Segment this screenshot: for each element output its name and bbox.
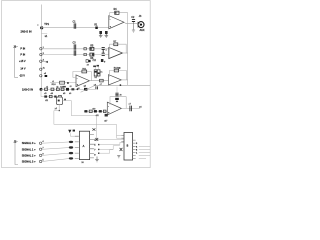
U6 right pin stubs — [133, 140, 136, 158]
wire stub above feedback — [116, 87, 118, 93]
svg-text:2N3-G IN: 2N3-G IN — [21, 30, 32, 34]
svg-text:P IN: P IN — [20, 48, 25, 51]
pin circle signal 2 — [39, 154, 41, 156]
IC U5 — [79, 131, 89, 159]
wire routing line C — [54, 111, 117, 139]
wire U6 out 3 — [139, 152, 150, 154]
IC U6 — [124, 133, 133, 161]
wire staircase d — [99, 150, 113, 154]
resistor R25 — [103, 110, 106, 112]
node 1N3 input dot — [40, 88, 43, 91]
ground under R3 — [105, 34, 109, 38]
node dots at U5 outputs — [98, 144, 100, 146]
svg-text:SIGNAL 3 +: SIGNAL 3 + — [22, 160, 36, 164]
capacitor C4 on P row 2 — [74, 50, 76, 55]
wire signal 3 — [42, 159, 69, 162]
pin 2 circle P IN — [40, 53, 42, 55]
wire U3a feedback loop — [73, 72, 91, 81]
wire U6 out 4 — [139, 155, 150, 157]
op-amp U3b — [109, 75, 122, 85]
wire U4 output — [121, 107, 140, 109]
resistor R4 feedback — [115, 11, 119, 14]
wire U2 feedback loop — [110, 44, 127, 53]
svg-text:14 V: 14 V — [20, 68, 25, 71]
connector J1 bracket — [15, 47, 18, 78]
resistor R16 — [56, 88, 59, 90]
U6 left pin stubs — [121, 135, 124, 141]
svg-text:AUX: AUX — [140, 29, 145, 32]
wire U3b output — [121, 79, 127, 81]
resistor R9 mid row — [86, 60, 88, 63]
diode D2 — [54, 96, 56, 98]
mark dark square at pin 5 — [45, 75, 48, 77]
resistor R12 on U3a output — [100, 79, 104, 82]
capacitor C3 on P row 1 — [74, 44, 76, 49]
op-amp U3a — [76, 75, 90, 87]
svg-text:+15 V: +15 V — [19, 60, 26, 63]
pin 3 circle +15V — [40, 60, 42, 62]
pin circle signal 3 — [39, 160, 41, 162]
wire stubs RN1 — [96, 67, 99, 78]
resistor R19 — [44, 95, 47, 97]
pin 5 circle -15V — [40, 75, 42, 77]
resistor R26 feedback — [115, 93, 118, 96]
node IN1 input dot — [40, 26, 43, 29]
resistor R23 — [89, 110, 92, 112]
resistor R24 — [99, 110, 102, 112]
svg-text:-15 V: -15 V — [19, 75, 25, 78]
pin 1 circle P IN — [40, 48, 42, 50]
resistor R8 bias — [101, 59, 104, 62]
resistor R10 on U3a input — [60, 81, 65, 84]
pin 4 circle 14V — [40, 68, 42, 70]
wire diagonal to trunk — [81, 86, 95, 93]
wire U6 out 1 — [139, 145, 150, 147]
wire from Y1 right side routing — [63, 101, 97, 142]
wire U6 out 5 — [139, 157, 146, 159]
mark at R13 — [118, 67, 120, 69]
resistor R17 — [61, 88, 64, 90]
wire Y1 bottom lead — [58, 105, 60, 111]
wire P row 1 — [42, 48, 109, 50]
svg-text:SIGNAL 2 +: SIGNAL 2 + — [22, 153, 36, 157]
resistor R27 below U4 input — [105, 114, 108, 117]
resistor R15 — [51, 88, 54, 90]
wire staircase c — [99, 146, 120, 150]
resistor R13 feedback — [114, 69, 118, 72]
diode D1 dark — [66, 88, 69, 91]
pin circle signal 1 — [39, 148, 41, 150]
U5 left pin stubs — [75, 136, 79, 158]
wire U2 output — [123, 52, 128, 54]
ground under U5 right — [95, 157, 99, 162]
resistor R5 on P row 1 — [90, 47, 94, 50]
wire U3a input row — [50, 82, 76, 84]
mark arrow at pin 3 — [42, 61, 48, 63]
wire U3a output — [90, 80, 109, 82]
mark dark on row right — [84, 88, 87, 91]
wire stub below IN1 node — [41, 32, 47, 34]
pin circle signal 0 — [39, 142, 41, 144]
wire IN1 row horizontal — [42, 27, 109, 29]
border frame — [2, 1, 151, 168]
connector J3 AUX output — [138, 22, 144, 28]
wire signal 0 — [42, 142, 69, 143]
resistor R22 — [84, 110, 87, 112]
marks above RN1 — [93, 66, 96, 68]
mark triangle at U5 top-left — [68, 130, 71, 133]
pin marks left of U5 — [69, 141, 73, 143]
bus output vertical wire — [127, 24, 129, 86]
wire signal 1 — [42, 148, 69, 150]
resistor R18 — [71, 88, 74, 90]
capacitor C5 between P rows — [102, 48, 105, 56]
wire signal 2 — [42, 153, 69, 155]
resistor R1 series on IN1 wire — [95, 27, 98, 30]
mark at U6 lower-left — [117, 156, 120, 158]
capacitor C1 on IN1 wire — [74, 23, 76, 28]
wire staircase a — [94, 139, 124, 141]
wire op4 chain row — [84, 110, 107, 112]
mark right of R10 — [67, 82, 69, 84]
wire 1N3 row — [41, 88, 95, 90]
mark X at U6 left — [120, 148, 123, 151]
diode D4 feedback — [115, 98, 119, 100]
resistor R29 small on P row 2 — [84, 53, 87, 55]
capacitor C6 near trunk — [96, 86, 98, 89]
resistor R20 — [49, 95, 52, 97]
diode D3 — [94, 110, 97, 112]
wire output trunk to edge — [95, 84, 151, 86]
resistor R11 feedback — [82, 70, 87, 73]
wire second row — [41, 89, 59, 96]
mark at relay right wire — [64, 99, 66, 101]
svg-text:P IN: P IN — [20, 53, 25, 56]
resistor R14 — [45, 88, 48, 90]
wire U1 output — [124, 22, 138, 24]
resistor network RN1 stack b — [97, 70, 100, 76]
resistor network RN1 stack a — [94, 70, 97, 76]
crystal Y1 box — [57, 97, 63, 105]
svg-text:SIGNAL 1 +: SIGNAL 1 + — [22, 147, 36, 151]
capacitor C7 on U4 output — [130, 106, 132, 112]
svg-text:A: A — [83, 144, 85, 148]
svg-text:SIGNAL 0 +: SIGNAL 0 + — [22, 141, 36, 145]
mark under D4 — [116, 101, 118, 102]
wire U4 feedback loop — [110, 97, 126, 109]
connector J2 bracket — [15, 142, 18, 165]
resistor R28 small on P row 1 — [84, 48, 87, 50]
wire into U6 pin rows — [117, 135, 122, 138]
op-amp U1 — [109, 16, 124, 29]
resistor R21b — [59, 95, 62, 97]
resistor R7 feedback — [114, 43, 118, 46]
wire U3b feedback loop — [109, 71, 126, 80]
wire U1 feedback loop — [110, 13, 128, 24]
mark X on wire above U5 right — [95, 138, 98, 141]
wire U6 out 2 — [139, 148, 150, 150]
mark X at U5 top-right — [92, 128, 95, 130]
node dot on 1N3 row — [77, 88, 79, 90]
wire stub from triangle to U5 — [70, 133, 75, 136]
node dot on trunk — [120, 84, 122, 86]
capacitor C2 to ground at U1 output — [132, 19, 135, 21]
resistor R2 shunt — [99, 31, 102, 34]
op-amp U2 — [109, 47, 123, 58]
svg-text:TP1: TP1 — [44, 22, 49, 26]
wire vertical bus from top to IN1 node — [40, 5, 42, 90]
resistor R3 shunt — [105, 31, 108, 34]
wire P row 2 — [42, 54, 109, 56]
op-amp U4 — [107, 102, 121, 115]
ground under R2 — [99, 34, 103, 38]
wire staircase b — [99, 142, 125, 144]
svg-text:1N3-G IN: 1N3-G IN — [22, 88, 33, 92]
mark dark at R9 — [89, 60, 91, 62]
U5 right pin stubs — [90, 134, 94, 158]
resistor R6 on P row 2 — [90, 53, 94, 56]
